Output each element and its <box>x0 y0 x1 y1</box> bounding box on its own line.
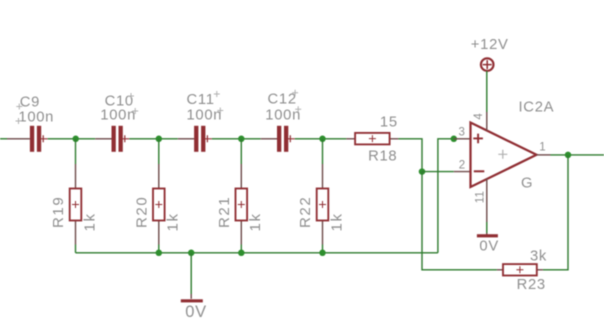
svg-text:100n: 100n <box>187 107 223 123</box>
origin cross C12 value <box>295 106 301 112</box>
capacitor C9 <box>30 126 48 152</box>
node junction after C11 <box>238 136 245 143</box>
wire C10 to C11 <box>129 138 178 140</box>
svg-text:R20: R20 <box>133 196 150 228</box>
resistor R19 <box>70 164 82 245</box>
wire C12 left lead <box>261 138 277 140</box>
resistor R20 bottom wire <box>158 245 160 253</box>
origin cross C12 name <box>292 90 298 96</box>
resistor R22 top lead wire <box>322 139 324 164</box>
resistor R20 <box>153 164 165 245</box>
svg-text:R21: R21 <box>216 196 233 228</box>
wire output red lead <box>537 154 551 156</box>
wire C9 to C10 <box>48 138 95 140</box>
wire C11 to C12 <box>212 138 261 140</box>
op-amp U IC2A triangle <box>471 123 537 188</box>
svg-text:4: 4 <box>473 113 485 120</box>
resistor R18 <box>346 133 398 145</box>
svg-text:+12V: +12V <box>471 37 509 53</box>
capacitor C10 <box>112 126 130 152</box>
resistor R20 top lead wire <box>158 139 160 164</box>
node rail ground <box>188 250 195 256</box>
resistor R19 bottom wire <box>75 245 77 253</box>
svg-text:2: 2 <box>459 160 466 172</box>
svg-text:C12: C12 <box>268 92 297 108</box>
wire pin2 red lead <box>454 171 471 173</box>
node rail R21 <box>238 250 245 256</box>
op-amp origin cross <box>498 150 507 159</box>
wire C9 left lead <box>7 138 30 140</box>
svg-text:1k: 1k <box>81 212 98 231</box>
node junction after C9 <box>72 136 79 143</box>
svg-text:C11: C11 <box>187 92 215 108</box>
wire pin11 to ground <box>486 222 488 233</box>
svg-text:3k: 3k <box>530 248 547 264</box>
resistor R21 top lead wire <box>240 139 242 164</box>
op-amp plus marking <box>473 134 483 144</box>
wire pin3 net: corner to rail <box>438 139 454 253</box>
wire pin3 red lead <box>454 138 471 140</box>
wire bottom rail <box>76 252 438 254</box>
origin cross C11 name <box>214 91 220 97</box>
origin cross C10 value <box>132 108 138 114</box>
node pin3 junction <box>451 136 458 143</box>
origin cross C9 value <box>16 118 22 124</box>
svg-text:1k: 1k <box>328 212 345 231</box>
op-amp minus marking <box>474 170 485 172</box>
wire R18 to corner down to pin2 node <box>398 139 422 172</box>
svg-text:3: 3 <box>459 127 466 139</box>
resistor R23 <box>497 264 543 275</box>
svg-text:R22: R22 <box>297 196 314 228</box>
node junction after C10 <box>156 136 163 143</box>
resistor R22 bottom wire <box>322 245 324 253</box>
wire pin11 red lead <box>486 178 488 222</box>
capacitor C12 <box>277 126 295 152</box>
wire pin2 node to op-amp <box>422 171 454 173</box>
wire C12 to R18 <box>295 138 347 140</box>
origin cross C10 name <box>128 93 134 99</box>
wire main input <box>0 138 7 140</box>
supply +12V symbol <box>481 58 494 71</box>
wire C11 left lead <box>178 138 194 140</box>
resistor R19 top lead wire <box>75 139 77 164</box>
wire pin4 red lead <box>486 112 488 131</box>
svg-text:G: G <box>521 176 533 192</box>
svg-text:1k: 1k <box>165 212 182 231</box>
svg-text:1k: 1k <box>247 212 264 231</box>
wire output <box>551 154 604 156</box>
wire ground stub <box>190 253 192 294</box>
node pin2 junction <box>419 168 426 175</box>
svg-text:0V: 0V <box>185 303 207 321</box>
svg-text:R18: R18 <box>368 149 397 165</box>
svg-text:0V: 0V <box>479 238 499 254</box>
wire +12V to pin4 <box>486 71 488 112</box>
node junction after C12 <box>319 136 326 143</box>
origin cross C9 name <box>16 104 22 110</box>
wire pin2 node down to feedback <box>422 172 497 270</box>
ground 0V op-amp symbol <box>477 233 498 237</box>
wire feedback from output <box>543 155 568 270</box>
wire C10 left lead <box>95 138 111 140</box>
resistor R22 <box>317 164 329 245</box>
svg-text:100n: 100n <box>100 107 136 123</box>
svg-text:11: 11 <box>475 191 487 203</box>
svg-text:100n: 100n <box>265 108 301 124</box>
node output junction <box>565 152 572 159</box>
origin cross C11 value <box>217 108 223 114</box>
svg-text:C9: C9 <box>20 95 40 111</box>
svg-text:1: 1 <box>539 141 546 153</box>
svg-text:R19: R19 <box>50 196 67 228</box>
node rail R22 <box>319 250 326 256</box>
svg-text:IC2A: IC2A <box>519 99 555 115</box>
svg-text:15: 15 <box>380 115 398 131</box>
svg-text:100n: 100n <box>18 109 54 125</box>
node rail R20 <box>156 250 163 256</box>
resistor R21 bottom wire <box>240 245 242 253</box>
svg-text:R23: R23 <box>517 277 546 293</box>
ground 0V main symbol <box>181 294 203 302</box>
resistor R21 <box>236 164 248 245</box>
capacitor C11 <box>194 126 212 152</box>
